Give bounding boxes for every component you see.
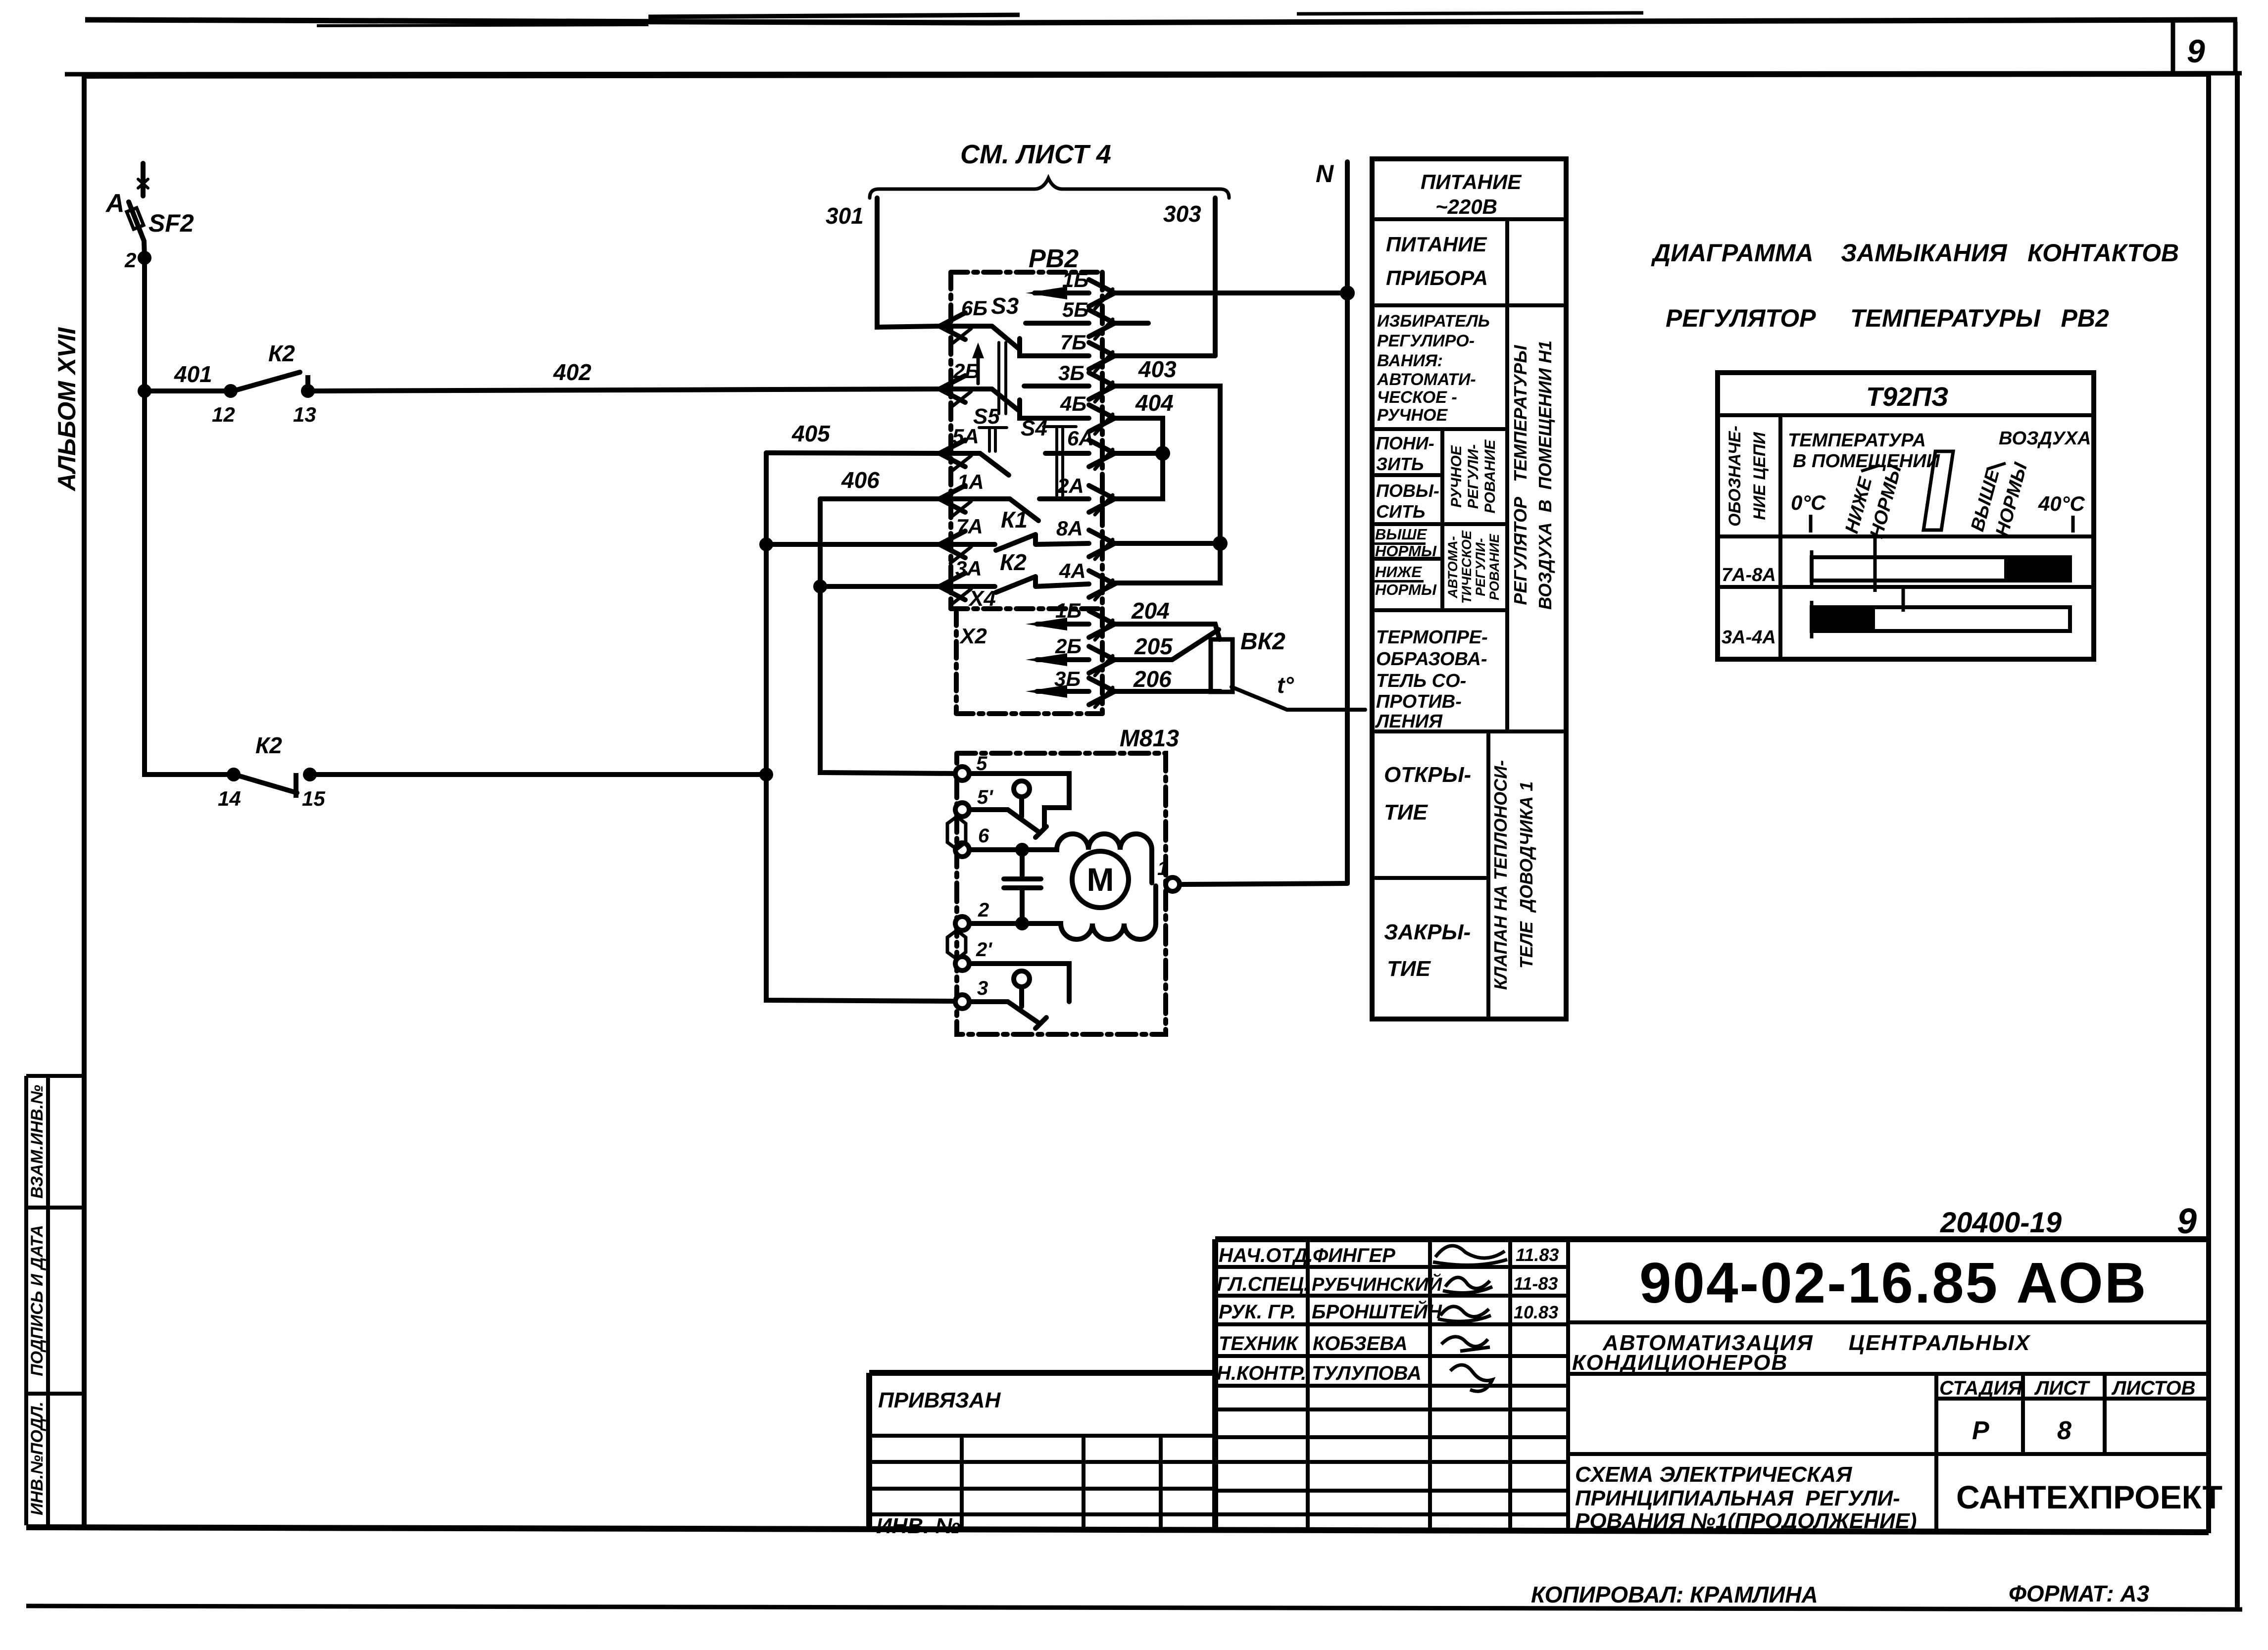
svg-text:301: 301 xyxy=(826,203,864,229)
contact 6Б (plug pin, left) xyxy=(939,313,965,340)
contact 3Б (plug pin, right) xyxy=(1089,373,1115,399)
svg-text:РОВАНИЯ №1(ПРОДОЛЖЕНИЕ): РОВАНИЯ №1(ПРОДОЛЖЕНИЕ) xyxy=(1575,1509,1917,1533)
selector S3 pole 1 lever xyxy=(992,326,1020,349)
svg-text:ИЗБИРАТЕЛЬ: ИЗБИРАТЕЛЬ xyxy=(1377,312,1490,331)
node junction at 401 xyxy=(140,387,149,395)
svg-text:ТИЕ: ТИЕ xyxy=(1387,957,1431,981)
svg-text:ВЫШЕ: ВЫШЕ xyxy=(1375,526,1428,543)
svg-text:14: 14 xyxy=(218,787,241,810)
contact 4Б (plug pin, right) xyxy=(1089,405,1115,432)
svg-text:1: 1 xyxy=(1157,858,1168,879)
signature 1 xyxy=(1433,1246,1507,1265)
svg-text:СХЕМА ЭЛЕКТРИЧЕСКАЯ: СХЕМА ЭЛЕКТРИЧЕСКАЯ xyxy=(1575,1462,1852,1487)
svg-text:403: 403 xyxy=(1138,356,1177,382)
svg-text:2А: 2А xyxy=(1057,474,1084,497)
svg-text:ПИТАНИЕ: ПИТАНИЕ xyxy=(1386,233,1487,256)
wire 3Б internal xyxy=(1024,384,1089,388)
limit switch lower (closing) xyxy=(969,964,1069,1002)
svg-text:КЛАПАН НА ТЕПЛОНОСИ-: КЛАПАН НА ТЕПЛОНОСИ- xyxy=(1490,760,1511,990)
PB2 enclosure dash-dot xyxy=(951,270,1097,275)
svg-text:404: 404 xyxy=(1135,390,1174,416)
doc number cell xyxy=(1568,1320,2209,1324)
svg-text:РЕГУЛИ-: РЕГУЛИ- xyxy=(1465,444,1481,509)
svg-text:ФИНГЕР: ФИНГЕР xyxy=(1313,1245,1395,1266)
function table frame xyxy=(1372,159,1566,1019)
junction 3A xyxy=(816,582,825,591)
vertical net A (405/7A/15) xyxy=(766,453,956,1001)
contact 2Б X2 (plug pin, right) xyxy=(1089,646,1115,673)
contact К2 lever xyxy=(996,577,1035,592)
svg-text:N: N xyxy=(1316,160,1334,188)
svg-text:РОВАНИЕ: РОВАНИЕ xyxy=(1487,534,1502,600)
contact 1Б (plug pin, right) xyxy=(1089,280,1115,306)
svg-text:ОТКРЫ-: ОТКРЫ- xyxy=(1384,763,1471,787)
svg-text:6А: 6А xyxy=(1067,427,1094,450)
motor M winding top xyxy=(969,834,1152,883)
contact bar 3А-4А xyxy=(1810,601,1814,638)
svg-text:7А: 7А xyxy=(956,515,983,538)
contact 4А (plug pin, right) xyxy=(1089,571,1115,597)
contact 8А (plug pin, right) xyxy=(1089,530,1115,557)
terminal 3 xyxy=(955,995,969,1009)
limit switch upper (opening) xyxy=(969,774,1069,828)
svg-text:3Б: 3Б xyxy=(1058,361,1085,385)
wire 206 xyxy=(1037,689,1089,694)
svg-text:ИНВ.№ПОДЛ.: ИНВ.№ПОДЛ. xyxy=(28,1402,47,1515)
diagram title xyxy=(1651,239,2179,332)
contact 5Б (plug pin, right) xyxy=(1089,310,1115,337)
contact 2Б (plug pin, left) xyxy=(939,376,965,402)
wire 204 xyxy=(1037,622,1089,627)
jumper 5'-6 xyxy=(947,817,966,849)
svg-text:0°С: 0°С xyxy=(1791,491,1826,514)
contact K2 (12-13) xyxy=(237,372,300,390)
vertical net B (406/3A/t5) xyxy=(820,499,956,774)
svg-text:НИЕ ЦЕПИ: НИЕ ЦЕПИ xyxy=(1750,432,1769,520)
svg-text:ТУЛУПОВА: ТУЛУПОВА xyxy=(1312,1362,1422,1384)
svg-text:КОБЗЕВА: КОБЗЕВА xyxy=(1313,1333,1408,1355)
svg-text:Р: Р xyxy=(1972,1416,1989,1445)
svg-text:13: 13 xyxy=(293,403,316,426)
svg-text:КОПИРОВАЛ: КРАМЛИНА: КОПИРОВАЛ: КРАМЛИНА xyxy=(1531,1582,1818,1607)
svg-text:СМ. ЛИСТ 4: СМ. ЛИСТ 4 xyxy=(960,140,1111,169)
svg-text:ТЕХНИК: ТЕХНИК xyxy=(1219,1333,1299,1355)
contact 1А (plug pin, left) xyxy=(939,485,965,512)
svg-text:ВОЗДУХА В ПОМЕЩЕНИИ Н1: ВОЗДУХА В ПОМЕЩЕНИИ Н1 xyxy=(1535,340,1555,610)
svg-text:t°: t° xyxy=(1277,672,1294,698)
wire 5А internal xyxy=(939,451,980,456)
brace xyxy=(870,178,1229,198)
svg-text:2': 2' xyxy=(976,939,992,961)
wire 3A xyxy=(820,584,939,589)
svg-text:РУЧНОЕ: РУЧНОЕ xyxy=(1448,445,1465,507)
contact S5 lever xyxy=(980,453,1009,475)
below-norm caption xyxy=(1841,462,1906,541)
svg-text:ФОРМАТ: А3: ФОРМАТ: А3 xyxy=(2009,1581,2150,1606)
pin labels left column xyxy=(952,296,987,580)
svg-text:205: 205 xyxy=(1134,633,1173,659)
svg-text:ГЛ.СПЕЦ.: ГЛ.СПЕЦ. xyxy=(1217,1273,1309,1295)
svg-text:406: 406 xyxy=(841,467,880,493)
svg-text:НАЧ.ОТД.: НАЧ.ОТД. xyxy=(1219,1245,1313,1266)
svg-text:3: 3 xyxy=(977,977,988,999)
svg-text:ВОЗДУХА: ВОЗДУХА xyxy=(1999,428,2091,449)
svg-text:Н.КОНТР.: Н.КОНТР. xyxy=(1217,1362,1306,1384)
node 13 xyxy=(303,387,312,395)
contact 3Б X2 (plug pin, right) xyxy=(1089,678,1115,705)
wire 405 xyxy=(766,453,939,453)
svg-text:ПРИБОРА: ПРИБОРА xyxy=(1386,266,1488,290)
contact 2А (plug pin, right) xyxy=(1089,485,1115,512)
svg-text:3А-4А: 3А-4А xyxy=(1722,627,1776,648)
svg-text:РЕГУЛИРО-: РЕГУЛИРО- xyxy=(1377,332,1475,350)
axis ticks xyxy=(1811,515,2073,533)
svg-text:11.83: 11.83 xyxy=(1516,1245,1559,1265)
signature 4 xyxy=(1441,1337,1490,1351)
svg-text:40°С: 40°С xyxy=(2038,492,2085,515)
wire 8А to 403 xyxy=(1115,541,1220,546)
header strip line xyxy=(65,73,2242,74)
svg-text:8А: 8А xyxy=(1056,517,1083,540)
svg-text:Х2: Х2 xyxy=(959,624,987,648)
wire 2А internal xyxy=(1039,496,1089,501)
wire 15 to node A1 xyxy=(310,772,766,777)
svg-text:12: 12 xyxy=(212,403,235,426)
svg-text:ВАНИЯ:: ВАНИЯ: xyxy=(1377,351,1443,370)
svg-text:РЕГУЛИ-: РЕГУЛИ- xyxy=(1473,538,1488,596)
svg-text:АВТОМА-: АВТОМА- xyxy=(1445,536,1460,598)
svg-text:НОРМЫ: НОРМЫ xyxy=(1375,542,1437,560)
svg-text:ЛИСТОВ: ЛИСТОВ xyxy=(2111,1377,2196,1399)
svg-text:РОВАНИЕ: РОВАНИЕ xyxy=(1482,439,1498,514)
svg-text:4Б: 4Б xyxy=(1060,392,1086,415)
svg-text:402: 402 xyxy=(553,359,592,385)
svg-text:ПОДПИСЬ И ДАТА: ПОДПИСЬ И ДАТА xyxy=(28,1225,47,1376)
svg-text:7А-8А: 7А-8А xyxy=(1722,565,1776,585)
T92P3 table frame xyxy=(1718,373,2094,659)
node 14 xyxy=(229,770,238,779)
svg-text:РЕГУЛЯТОР ТЕМПЕРАТУРЫ: РЕГУЛЯТОР ТЕМПЕРАТУРЫ xyxy=(1510,345,1530,605)
svg-text:ТЕМПЕРАТУРА: ТЕМПЕРАТУРА xyxy=(1788,430,1926,451)
svg-text:БРОНШТЕЙН: БРОНШТЕЙН xyxy=(1312,1300,1442,1323)
setpoint arrow xyxy=(977,349,980,384)
wire 5Б stub xyxy=(1115,321,1148,326)
svg-text:РУЧНОЕ: РУЧНОЕ xyxy=(1377,406,1448,425)
svg-text:9: 9 xyxy=(2187,33,2205,69)
svg-text:2: 2 xyxy=(978,899,989,921)
wire 7Б internal xyxy=(1020,339,1089,356)
staff grid xyxy=(1308,1239,1568,1532)
svg-text:РЕГУЛЯТОР ТЕМПЕРАТУРЫ РВ: РЕГУЛЯТОР ТЕМПЕРАТУРЫ РВ2 xyxy=(1666,304,2109,332)
svg-text:303: 303 xyxy=(1163,201,1201,227)
thermistor BK2 xyxy=(1211,639,1233,692)
svg-text:ТИЕ: ТИЕ xyxy=(1384,800,1429,825)
above-norm caption xyxy=(1967,460,2031,539)
wire 1А internal xyxy=(939,496,1010,501)
svg-text:11-83: 11-83 xyxy=(1514,1273,1558,1294)
selector S3 pole 2 lever xyxy=(992,389,1020,411)
deadband parallelogram xyxy=(1923,451,1953,530)
svg-text:9: 9 xyxy=(2177,1202,2197,1241)
node 12 xyxy=(226,387,235,395)
svg-text:АЛЬБОМ XVII: АЛЬБОМ XVII xyxy=(53,327,81,492)
svg-text:ПОВЫ-: ПОВЫ- xyxy=(1376,481,1439,501)
node 2 xyxy=(140,253,149,262)
svg-text:АВТОМАТИ-: АВТОМАТИ- xyxy=(1377,370,1476,389)
svg-text:SF2: SF2 xyxy=(148,209,194,237)
svg-text:7Б: 7Б xyxy=(1060,331,1086,354)
svg-text:S4: S4 xyxy=(1021,416,1047,440)
svg-text:К2: К2 xyxy=(268,340,295,366)
wire 4А internal xyxy=(1035,584,1089,586)
svg-text:5Б: 5Б xyxy=(1062,298,1088,321)
terminal 2' xyxy=(955,957,969,971)
connector X2 box xyxy=(956,609,1102,714)
sheet bottom edge line xyxy=(26,1606,2242,1609)
svg-text:ТЕЛЕ ДОВОДЧИКА 1: ТЕЛЕ ДОВОДЧИКА 1 xyxy=(1516,781,1536,969)
M813 enclosure dash-dot xyxy=(957,753,1166,1034)
signature 2 xyxy=(1443,1277,1492,1293)
motor M winding bottom xyxy=(969,886,1156,939)
signature 5 xyxy=(1450,1365,1492,1391)
wire 6Б internal xyxy=(939,324,992,329)
svg-text:М813: М813 xyxy=(1120,726,1179,752)
svg-text:206: 206 xyxy=(1133,666,1172,692)
title block outer xyxy=(1215,1236,2209,1242)
svg-text:К2: К2 xyxy=(1000,549,1027,575)
junction 15-A xyxy=(762,770,771,779)
wire SF2 down to bus xyxy=(144,241,145,391)
svg-text:ДИАГРАММА ЗАМЫКАНИЯ КОНТА: ДИАГРАММА ЗАМЫКАНИЯ КОНТАКТОВ xyxy=(1651,239,2179,267)
svg-text:РУК. ГР.: РУК. ГР. xyxy=(1219,1301,1296,1323)
jumper 2-2' xyxy=(947,930,966,959)
svg-text:8: 8 xyxy=(2057,1416,2071,1445)
wire motor to N bus xyxy=(1180,883,1347,884)
svg-text:ЛИСТ: ЛИСТ xyxy=(2034,1377,2091,1399)
svg-text:15: 15 xyxy=(302,787,325,810)
axis caption xyxy=(1788,428,2091,515)
wire 6А internal xyxy=(1045,451,1089,456)
contact 3А (plug pin, left) xyxy=(939,573,965,600)
svg-text:СТАДИЯ: СТАДИЯ xyxy=(1939,1377,2022,1399)
pin labels right column xyxy=(1054,268,1094,690)
wire 402 xyxy=(308,389,939,391)
contact 7Б (plug pin, right) xyxy=(1089,342,1115,369)
contact K2 (14-15) xyxy=(240,776,297,793)
svg-text:САНТЕХПРОЕКТ: САНТЕХПРОЕКТ xyxy=(1956,1479,2222,1515)
svg-text:S5: S5 xyxy=(973,404,1000,429)
left stamp boxes xyxy=(26,1076,48,1525)
svg-text:А: А xyxy=(105,189,125,218)
svg-text:НОРМЫ: НОРМЫ xyxy=(1375,581,1437,598)
wire 7A xyxy=(766,542,939,547)
svg-text:ЗИТЬ: ЗИТЬ xyxy=(1376,454,1424,474)
drawing frame xyxy=(84,74,2209,76)
svg-text:6Б: 6Б xyxy=(961,296,987,320)
S3 mechanical link xyxy=(999,342,1006,414)
wire 4Б internal xyxy=(1020,400,1089,418)
svg-text:3А: 3А xyxy=(955,557,982,580)
svg-text:ЛЕНИЯ: ЛЕНИЯ xyxy=(1375,711,1443,732)
motor M xyxy=(1072,851,1129,908)
signature 3 xyxy=(1438,1307,1491,1321)
sheet top edge line xyxy=(85,20,2237,23)
button S5 xyxy=(979,428,1007,451)
wire 7Б to 303 xyxy=(1115,353,1215,358)
svg-text:КОНДИЦИОНЕРОВ: КОНДИЦИОНЕРОВ xyxy=(1572,1351,1788,1375)
svg-text:СИТЬ: СИТЬ xyxy=(1376,501,1425,522)
svg-text:РУБЧИНСКИЙ: РУБЧИНСКИЙ xyxy=(1312,1273,1442,1295)
svg-text:К1: К1 xyxy=(1001,507,1028,533)
wire 7А internal xyxy=(939,542,995,547)
svg-text:2Б: 2Б xyxy=(1055,634,1082,658)
svg-text:ТЕРМОПРЕ-: ТЕРМОПРЕ- xyxy=(1376,627,1488,648)
wire 1Б internal with arrow xyxy=(1035,291,1089,295)
contact S4 lever xyxy=(1010,499,1038,521)
svg-text:4А: 4А xyxy=(1059,559,1086,582)
terminal 6 xyxy=(955,843,969,857)
svg-text:ПРОТИВ-: ПРОТИВ- xyxy=(1376,691,1462,712)
svg-text:К2: К2 xyxy=(255,732,282,758)
svg-text:НИЖЕ: НИЖЕ xyxy=(1375,563,1422,581)
svg-text:М: М xyxy=(1087,861,1114,898)
svg-text:S3: S3 xyxy=(991,293,1019,319)
node 15 xyxy=(305,770,314,779)
junction 7A xyxy=(762,540,771,549)
wire SF2 bus down to K2 14 xyxy=(145,391,231,775)
svg-text:405: 405 xyxy=(791,421,831,446)
svg-text:ИНВ. №: ИНВ. № xyxy=(876,1514,960,1538)
svg-text:ЗАКРЫ-: ЗАКРЫ- xyxy=(1384,920,1471,944)
svg-text:10.83: 10.83 xyxy=(1514,1302,1558,1322)
svg-text:ВЗАМ.ИНВ.№: ВЗАМ.ИНВ.№ xyxy=(28,1085,47,1199)
terminal 5 xyxy=(955,767,969,780)
contact 7А (plug pin, left) xyxy=(939,531,965,558)
svg-text:ОБРАЗОВА-: ОБРАЗОВА- xyxy=(1376,649,1487,670)
svg-text:ОБОЗНАЧЕ-: ОБОЗНАЧЕ- xyxy=(1726,426,1744,527)
svg-text:ПРИВЯЗАН: ПРИВЯЗАН xyxy=(878,1388,1001,1412)
contact 1Б X2 (plug pin, right) xyxy=(1089,611,1115,637)
terminal 2 xyxy=(955,917,969,930)
svg-text:ЧЕСКОЕ -: ЧЕСКОЕ - xyxy=(1377,388,1457,407)
contact 6А (plug pin, right) xyxy=(1089,440,1115,467)
svg-text:ТЕЛЬ СО-: ТЕЛЬ СО- xyxy=(1376,671,1466,691)
contact К1 lever xyxy=(996,534,1035,550)
svg-text:ВК2: ВК2 xyxy=(1240,629,1285,655)
wire 6А to 404 xyxy=(1115,451,1163,456)
terminal 5' xyxy=(955,803,969,817)
svg-text:~220В: ~220В xyxy=(1435,195,1497,218)
wire 2Б internal xyxy=(939,387,992,391)
svg-text:ПРИНЦИПИАЛЬНАЯ РЕГУЛИ-: ПРИНЦИПИАЛЬНАЯ РЕГУЛИ- xyxy=(1575,1486,1900,1510)
svg-text:1А: 1А xyxy=(957,470,984,493)
svg-text:1Б: 1Б xyxy=(1055,599,1082,622)
wire 8А internal xyxy=(1035,543,1089,544)
contact 5А (plug pin, left) xyxy=(939,440,965,467)
wire 5Б internal xyxy=(1026,321,1089,326)
wire 205 xyxy=(1037,657,1089,662)
svg-text:401: 401 xyxy=(174,361,212,387)
svg-text:2: 2 xyxy=(124,248,136,272)
svg-text:20400-19: 20400-19 xyxy=(1940,1207,2062,1239)
capacitor xyxy=(1004,879,1041,888)
wire 401 xyxy=(145,388,231,393)
wire 3А internal xyxy=(939,584,995,589)
contact bar 7А-8А xyxy=(1810,550,1814,589)
wire 1Б to N xyxy=(1115,291,1347,295)
svg-text:5': 5' xyxy=(977,786,993,808)
svg-text:ПИТАНИЕ: ПИТАНИЕ xyxy=(1421,170,1522,194)
wire 406 xyxy=(820,496,939,501)
button S4 xyxy=(1043,427,1076,497)
svg-text:ТИЧЕСКОЕ: ТИЧЕСКОЕ xyxy=(1459,530,1474,604)
svg-text:Т92ПЗ: Т92ПЗ xyxy=(1866,382,1949,412)
connector X4 divider xyxy=(951,606,1102,611)
svg-text:904-02-16.85 АОВ: 904-02-16.85 АОВ xyxy=(1639,1251,2148,1315)
page number box xyxy=(2173,22,2235,74)
svg-text:204: 204 xyxy=(1131,598,1170,624)
breaker SF2 xyxy=(141,163,146,196)
svg-text:6: 6 xyxy=(978,825,989,847)
svg-text:2Б: 2Б xyxy=(953,359,980,383)
svg-text:ПОНИ-: ПОНИ- xyxy=(1376,433,1434,453)
